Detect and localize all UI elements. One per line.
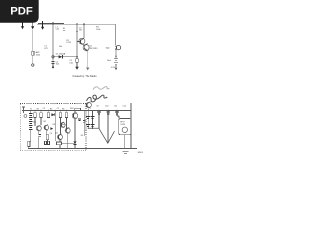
resistor R14 (47, 113, 49, 118)
ground symbol below rail (123, 151, 129, 153)
transistor Q3 (36, 125, 41, 131)
diode D2 (51, 113, 55, 116)
node on rail x77 (76, 23, 78, 25)
svg-text:473: 473 (44, 48, 48, 50)
node rail x48.5 (48, 110, 50, 112)
wire x74.5 vertical (74, 119, 76, 149)
svg-text:C10: C10 (105, 106, 108, 108)
wire from coil down (30, 130, 32, 142)
wire x55 long (54, 111, 56, 141)
wire x60.5 down (60, 117, 62, 134)
capacitor C19 (107, 112, 111, 114)
svg-text:Spkr: Spkr (106, 48, 110, 50)
capacitor C17 (91, 125, 95, 127)
svg-text:R8: R8 (53, 124, 55, 126)
wire detector (53, 56, 77, 58)
svg-text:PDF: PDF (10, 6, 33, 18)
resistor R12 (34, 113, 36, 118)
svg-text:D1 1N34A: D1 1N34A (56, 53, 66, 56)
wire Q3 to rail bottom (38, 131, 40, 149)
dashed enclosure border (20, 104, 86, 151)
arrow terminal 3 under badge (41, 21, 44, 30)
node detector junction (76, 56, 78, 58)
node rail x99 (98, 110, 100, 112)
wire x92.5 down (92, 111, 94, 129)
arrow terminal 1 under badge (21, 23, 24, 30)
resistor box R17 (46, 135, 49, 140)
wire to battery (115, 50, 117, 59)
wire x41 down (40, 117, 42, 125)
svg-text:R2: R2 (37, 108, 39, 110)
wire battery to ground (115, 65, 117, 68)
transistor Q2 (83, 43, 89, 51)
capacitor C18 (97, 112, 101, 114)
svg-text:C3: C3 (43, 108, 45, 110)
svg-text:0.01: 0.01 (69, 62, 74, 64)
wire to ground x77 (76, 62, 78, 67)
input terminal left (22, 107, 25, 114)
svg-text:10k: 10k (33, 121, 36, 123)
ground arrow battery (115, 68, 118, 70)
wire x117 down (117, 111, 119, 119)
wire Q4 down (46, 130, 47, 141)
handwriting scribble dark (87, 95, 108, 102)
wire supply rail (22, 110, 131, 112)
capacitor C20 (115, 112, 119, 114)
svg-text:100k: 100k (36, 54, 40, 56)
transistor Q7 (58, 134, 63, 140)
wire to diode D4 (61, 142, 74, 144)
wire V antenna (88, 128, 115, 143)
coil T1 dark stack (29, 111, 33, 130)
arrow terminal 2 under badge (31, 23, 34, 30)
diode D4 (74, 141, 77, 144)
wire R11 to rail (28, 147, 30, 149)
ground arrow emitter (86, 68, 89, 71)
transistor Q1 (79, 38, 85, 45)
terminal circle (32, 64, 34, 66)
node rail x55 (54, 110, 56, 112)
wire top rail (38, 23, 64, 25)
svg-text:Batt: Batt (107, 59, 111, 62)
node rail x41 (40, 110, 42, 112)
diode D1 (59, 55, 63, 58)
svg-text:10k: 10k (59, 46, 62, 48)
wire x99 down (98, 111, 100, 129)
PDF badge (0, 0, 39, 23)
wire emitter to ground (87, 51, 89, 68)
wire x108 down (107, 111, 109, 144)
resistor ANT (32, 51, 34, 55)
diode D3 blob (50, 127, 53, 130)
svg-text:MW-5: MW-5 (138, 152, 144, 154)
node rail x35 (34, 110, 36, 112)
wire Q8 down (67, 133, 69, 149)
wire base Q1 (77, 41, 81, 43)
wire ground rail bottom (28, 148, 137, 150)
node speaker-battery (115, 56, 116, 57)
svg-text:C5: C5 (57, 108, 59, 110)
wire x35 down (34, 117, 36, 125)
resistor R16 (65, 113, 67, 118)
svg-text:Q3: Q3 (55, 133, 58, 135)
resistor R15 (59, 113, 61, 118)
wire antenna branch (32, 30, 34, 52)
capacitor C1 (51, 61, 54, 63)
speaker box SP1 (119, 119, 131, 135)
wire branch x77 upper (76, 24, 78, 58)
svg-text:10n: 10n (79, 30, 82, 32)
wire right edge riser (130, 103, 132, 149)
capacitor C16 (91, 116, 95, 118)
capacitor C8 (78, 119, 81, 121)
transistor Q6 (72, 112, 78, 119)
battery B1 (114, 59, 118, 65)
transistor Q4 (44, 125, 49, 131)
svg-text:VR1: VR1 (70, 108, 74, 110)
node rail x117 (116, 110, 118, 112)
capacitor on x84.3 (83, 120, 86, 122)
tick on x77 (76, 31, 78, 33)
svg-text:2SC1815: 2SC1815 (89, 48, 98, 50)
node rail x108 (108, 110, 110, 112)
capacitor C12 dark (38, 134, 41, 136)
pot VR1 (75, 108, 81, 111)
wire right riser (115, 24, 117, 45)
svg-text:D4: D4 (81, 135, 83, 137)
svg-text:Created by: The Radio: Created by: The Radio (72, 75, 97, 78)
wire collector Q1 to rail (83, 24, 85, 38)
svg-text:C9: C9 (96, 106, 98, 108)
svg-text:2k2: 2k2 (43, 121, 46, 123)
wire link Q5-Q6 (60, 125, 66, 131)
svg-text:R6: R6 (62, 108, 64, 110)
svg-text:104: 104 (56, 64, 60, 66)
transistor Q5 (60, 122, 65, 128)
svg-text:C6: C6 (50, 133, 52, 135)
earphone (115, 45, 121, 49)
node rail x60.5 (60, 110, 62, 112)
capacitor pair C13 (44, 141, 49, 144)
wire tuned branch (52, 24, 54, 60)
handwriting scribble light (93, 87, 109, 90)
ground arrow x77 (75, 67, 79, 70)
svg-text:4.7M: 4.7M (66, 42, 71, 44)
node on rail x53 (52, 23, 54, 25)
svg-text:sw: sw (63, 30, 66, 32)
node rail x66.5 (66, 110, 68, 112)
transistor Q9 above rail (86, 102, 91, 109)
svg-text:C12: C12 (123, 106, 126, 108)
wire to terminal blob (52, 63, 54, 66)
capacitor C2 box (76, 59, 79, 63)
svg-text:0.5W: 0.5W (120, 124, 125, 126)
svg-text:Coil: Coil (56, 29, 60, 31)
transistor Q8 (65, 127, 70, 133)
capacitor C14 (86, 116, 90, 118)
capacitor C15 (86, 125, 90, 127)
resistor R11 (28, 141, 30, 146)
node collector rail (83, 23, 85, 25)
trimmer circle left (24, 115, 27, 118)
wire speaker to rail bottom (124, 135, 126, 149)
wire Q9 down (88, 108, 90, 128)
resistor R18 horizontal (56, 142, 61, 145)
svg-text:C11: C11 (114, 106, 117, 108)
svg-text:T1: T1 (30, 108, 32, 110)
resistor R13 (40, 113, 42, 118)
wire below resistor (32, 55, 34, 64)
wire x84.3 inner (83, 111, 85, 136)
svg-text:100k: 100k (96, 29, 100, 31)
connector circle (52, 56, 54, 58)
wire Q7 down (59, 140, 61, 149)
svg-text:R4: R4 (50, 108, 52, 110)
wire pot to Q6 (74, 111, 76, 113)
terminal blob (52, 66, 54, 68)
wire x66.5 down (66, 117, 68, 130)
